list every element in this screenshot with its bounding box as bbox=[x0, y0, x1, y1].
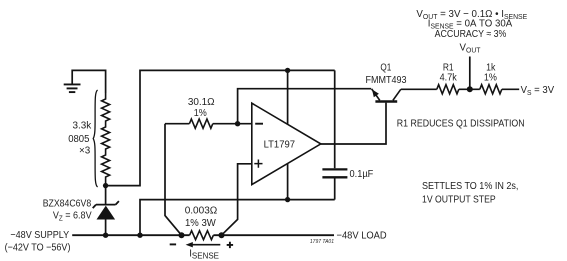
annotation: VOUT equation block bbox=[416, 9, 527, 41]
label Q1 / FMMT493 bbox=[365, 61, 407, 86]
svg-text:−48V LOAD: −48V LOAD bbox=[337, 230, 387, 242]
label ISENSE bbox=[189, 248, 219, 260]
svg-text:BZX84C6V8: BZX84C6V8 bbox=[43, 198, 91, 210]
label 1k / 1% bbox=[484, 62, 497, 84]
resistor 1k 1% bbox=[480, 85, 502, 94]
svg-text:1%: 1% bbox=[194, 107, 207, 119]
wire: 30.1 ohm to inverting input bbox=[213, 123, 252, 125]
node: sense resistor + terminal bbox=[219, 232, 225, 238]
op-amp U1 LT1797 bbox=[252, 103, 321, 184]
capacitor C1 0.1uF plates bbox=[322, 169, 347, 177]
node: V+ supply tap for op-amp bbox=[285, 68, 290, 73]
svg-text:30.1Ω: 30.1Ω bbox=[188, 97, 215, 108]
label -48V SUPPLY (-42V TO -56V) bbox=[5, 230, 71, 254]
op-amp plus input marker bbox=[254, 160, 262, 168]
label 1797 TA01 bbox=[310, 239, 334, 245]
node: op-amp V- pin junction bbox=[285, 197, 290, 202]
brace for 3.3k chain bbox=[93, 90, 97, 187]
wire: op-amp output to Q1 base bbox=[321, 103, 386, 144]
label 0.1uF bbox=[350, 169, 374, 181]
node: V- rail to -48V rail junction bbox=[137, 233, 142, 238]
label VS = 3V bbox=[521, 84, 555, 96]
svg-text:LT1797: LT1797 bbox=[264, 139, 295, 150]
svg-text:0.003Ω: 0.003Ω bbox=[185, 205, 218, 216]
ground symbol bbox=[64, 84, 81, 92]
node: VOUT junction bbox=[467, 86, 473, 92]
arrow: ISENSE direction bbox=[186, 242, 221, 247]
node: sense resistor - terminal bbox=[179, 232, 185, 238]
label 0.003 ohm / 1% 3W bbox=[185, 205, 218, 229]
node: zener anode on -48V rail bbox=[103, 233, 108, 238]
wire: Kelvin - tap down to sense resistor bbox=[165, 124, 182, 236]
svg-text:4.7k: 4.7k bbox=[440, 72, 457, 84]
svg-text:1%: 1% bbox=[484, 72, 497, 84]
resistor 0.003 ohm sense bbox=[190, 231, 214, 240]
label BZX84C6V8 / VZ = 6.8V bbox=[43, 198, 92, 223]
wire: 1k to VS bbox=[502, 88, 519, 90]
zener diode D1 BZX84C6V8 bbox=[93, 201, 119, 235]
svg-text:×3: ×3 bbox=[79, 145, 91, 156]
op-amp minus input marker bbox=[255, 123, 263, 125]
label minus terminal bbox=[170, 243, 176, 245]
wire: R1 to VOUT node bbox=[459, 88, 480, 90]
label 30.1 ohm / 1% bbox=[188, 97, 215, 119]
wire: 30.1 ohm input branch from Kelvin tap bbox=[165, 123, 189, 125]
label 3.3k 0805 x3 bbox=[68, 120, 92, 156]
svg-text:FMMT493: FMMT493 bbox=[365, 74, 407, 86]
svg-text:1797 TA01: 1797 TA01 bbox=[310, 239, 334, 245]
svg-text:ACCURACY ≈ 3%: ACCURACY ≈ 3% bbox=[435, 29, 507, 41]
wire: -48V supply rail bbox=[72, 234, 334, 236]
svg-text:3.3k: 3.3k bbox=[72, 120, 92, 131]
wire: op-amp V- supply rail to -48V bbox=[140, 200, 335, 236]
annotation: SETTLES TO 1% IN 2s, 1V OUTPUT STEP bbox=[422, 181, 518, 206]
wire: Q1 collector to R1 bbox=[401, 88, 437, 90]
wire: zener node to op-amp V+ supply (bootstrapped rail) bbox=[106, 70, 335, 185]
svg-text:R1 REDUCES Q1 DISSIPATION: R1 REDUCES Q1 DISSIPATION bbox=[397, 118, 525, 130]
wire: op-amp supply pins (vertical through triangle) bbox=[287, 70, 289, 199]
svg-text:VS = 3V: VS = 3V bbox=[521, 84, 555, 96]
svg-text:VZ = 6.8V: VZ = 6.8V bbox=[53, 210, 92, 223]
wire: feedback from Q1 emitter to inverting input bbox=[238, 89, 372, 124]
svg-text:0.1µF: 0.1µF bbox=[350, 169, 374, 181]
annotation: R1 REDUCES Q1 DISSIPATION bbox=[397, 118, 525, 130]
wire: non-inverting input to Kelvin + tap bbox=[222, 164, 252, 235]
svg-text:ISENSE: ISENSE bbox=[189, 248, 219, 260]
svg-text:−48V SUPPLY: −48V SUPPLY bbox=[10, 230, 69, 242]
label R1 / 4.7k bbox=[440, 62, 457, 84]
resistor 30.1 ohm 1% bbox=[189, 119, 212, 128]
node: inverting input / feedback junction bbox=[235, 121, 240, 126]
svg-text:(−42V TO −56V): (−42V TO −56V) bbox=[5, 242, 71, 254]
capacitor C1 0.1uF branch wires bbox=[334, 70, 336, 199]
svg-text:0805: 0805 bbox=[68, 134, 90, 146]
label LT1797 bbox=[264, 139, 295, 150]
transistor Q1 FMMT493 bbox=[372, 89, 401, 102]
label plus terminal bbox=[227, 242, 233, 248]
label VOUT bbox=[460, 42, 482, 54]
svg-text:SETTLES TO 1% IN 2s,: SETTLES TO 1% IN 2s, bbox=[422, 181, 518, 193]
svg-text:1% 3W: 1% 3W bbox=[185, 218, 216, 229]
wire: VOUT stub bbox=[469, 57, 471, 90]
wire: junction down to zener cathode bbox=[105, 186, 107, 205]
node: zener / chain bottom junction bbox=[103, 183, 108, 188]
resistor R1 4.7k bbox=[437, 85, 459, 94]
wire: ground to 3.3k resistor chain top bbox=[72, 70, 105, 93]
label -48V LOAD bbox=[337, 230, 387, 242]
svg-text:1V OUTPUT STEP: 1V OUTPUT STEP bbox=[422, 194, 496, 206]
resistor chain 3.3k 0805 x3 (three series resistors) bbox=[102, 93, 110, 186]
svg-text:Q1: Q1 bbox=[380, 61, 391, 73]
